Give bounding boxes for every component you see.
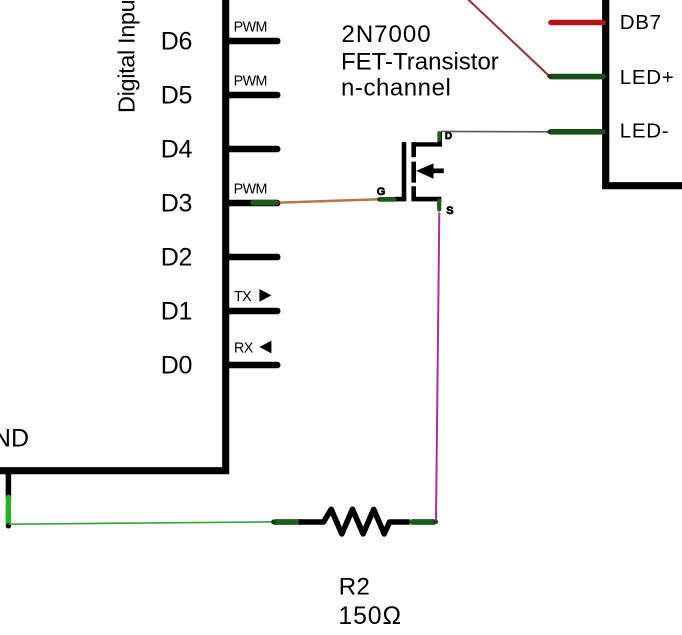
wire Q1 drain to LED- (gray) <box>441 130 550 132</box>
substrate arrow <box>416 163 433 178</box>
GND connected leg (bright green) <box>6 498 12 524</box>
svg-text:GND: GND <box>0 424 29 452</box>
svg-text:D3: D3 <box>161 189 192 217</box>
pin DB7 (red, unconnected) <box>551 20 603 26</box>
R2 body <box>299 509 410 534</box>
svg-text:FET-Transistor: FET-Transistor <box>341 49 499 76</box>
svg-text:2N7000: 2N7000 <box>342 21 432 48</box>
pin D2 <box>226 254 277 261</box>
pin D3 <box>226 200 277 207</box>
RX arrow <box>259 341 271 354</box>
gate bar <box>402 142 407 198</box>
svg-text:RX: RX <box>234 341 254 357</box>
svg-text:G: G <box>377 186 386 198</box>
pin LED- (green leg) <box>551 129 603 135</box>
svg-text:PWM: PWM <box>234 74 267 90</box>
pin D1 <box>226 308 277 315</box>
gate leg (green) <box>380 197 394 202</box>
svg-text:PWM: PWM <box>234 20 267 36</box>
svg-text:LED-: LED- <box>620 120 670 143</box>
drain lead <box>412 132 440 145</box>
pin D6 <box>226 38 277 45</box>
TX arrow <box>259 289 271 302</box>
svg-text:D: D <box>445 131 452 142</box>
transistor Q1 2N7000 <box>377 131 454 217</box>
pin LED+ (green leg) <box>551 74 603 80</box>
drain leg (green) <box>437 133 441 139</box>
svg-text:D5: D5 <box>161 81 192 109</box>
pin D5 <box>226 92 277 99</box>
svg-text:150Ω: 150Ω <box>338 603 402 630</box>
svg-text:Digital Input/Output: Digital Input/Output <box>113 0 139 113</box>
svg-text:D1: D1 <box>161 297 192 325</box>
channel dash 2 <box>411 162 416 183</box>
R2 right leg (green) <box>412 519 433 525</box>
D3 connected leg (green) <box>253 200 276 206</box>
channel dash 1 <box>411 142 416 157</box>
source leg (green) <box>437 201 441 210</box>
wire R2 to Q1 source (magenta) <box>436 213 439 521</box>
GND leg end dot <box>6 523 11 528</box>
resistor R2 <box>271 509 438 630</box>
IC body right (LCD) <box>606 0 682 186</box>
pin D4 <box>226 146 277 153</box>
svg-text:D2: D2 <box>161 243 192 271</box>
wire D3 to Q1 gate (salmon) <box>280 199 379 202</box>
pin D0 <box>226 362 277 369</box>
svg-text:DB7: DB7 <box>620 11 662 34</box>
channel dash 3 <box>411 186 416 200</box>
wire GND to R2 (green) <box>9 522 273 524</box>
svg-text:S: S <box>446 205 453 217</box>
gate lead <box>394 197 406 202</box>
svg-text:n-channel: n-channel <box>341 75 451 102</box>
svg-text:D0: D0 <box>161 351 192 379</box>
svg-text:LED+: LED+ <box>620 66 675 89</box>
R2 left leg (green) <box>275 519 300 525</box>
svg-text:PWM: PWM <box>234 182 267 198</box>
svg-text:D6: D6 <box>161 27 192 55</box>
svg-text:R2: R2 <box>339 574 371 601</box>
svg-text:TX: TX <box>234 289 252 305</box>
svg-text:D4: D4 <box>161 135 193 163</box>
pin GND (bottom) <box>6 471 12 499</box>
source lead <box>412 197 442 202</box>
IC body left (Arduino) <box>0 0 226 471</box>
wire top to LED+ (dark red) <box>468 0 549 76</box>
